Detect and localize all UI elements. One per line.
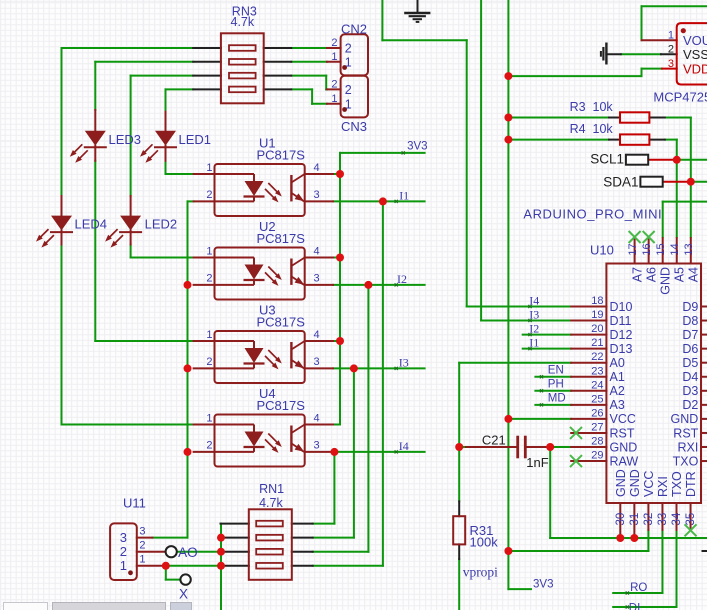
svg-text:RXI: RXI	[677, 440, 698, 454]
svg-text:A3: A3	[610, 398, 625, 412]
svg-text:4: 4	[314, 162, 320, 174]
svg-text:2: 2	[345, 42, 352, 56]
svg-text:VOUT: VOUT	[683, 33, 707, 48]
svg-text:I1: I1	[529, 336, 539, 350]
svg-text:GND: GND	[671, 412, 699, 426]
svg-text:2: 2	[206, 440, 212, 452]
svg-text:RAW: RAW	[610, 454, 639, 468]
svg-text:3: 3	[120, 530, 127, 545]
svg-text:RST: RST	[610, 426, 635, 440]
svg-text:TXO: TXO	[673, 454, 699, 468]
svg-text:DI: DI	[629, 603, 641, 610]
svg-text:PC817S: PC817S	[257, 148, 306, 163]
svg-text:25: 25	[591, 393, 603, 405]
svg-text:30: 30	[615, 513, 627, 526]
svg-text:U11: U11	[123, 496, 146, 511]
svg-text:27: 27	[591, 421, 603, 433]
svg-text:21: 21	[591, 337, 603, 349]
svg-text:U10: U10	[590, 243, 614, 258]
svg-text:4: 4	[314, 245, 320, 257]
svg-text:1nF: 1nF	[526, 455, 548, 470]
svg-text:LED4: LED4	[75, 217, 108, 232]
svg-text:3: 3	[314, 189, 320, 201]
svg-text:31: 31	[629, 513, 641, 526]
svg-text:3: 3	[668, 58, 674, 70]
svg-text:GND: GND	[610, 440, 638, 454]
svg-text:3V3: 3V3	[533, 578, 553, 590]
svg-text:D7: D7	[682, 328, 698, 342]
svg-text:X: X	[179, 587, 188, 602]
svg-text:I4: I4	[399, 439, 409, 453]
svg-text:RST: RST	[673, 426, 698, 440]
svg-text:I4: I4	[529, 294, 539, 308]
svg-text:1: 1	[345, 97, 352, 111]
svg-text:LED1: LED1	[179, 132, 212, 147]
svg-text:4: 4	[314, 329, 320, 341]
svg-text:ARDUINO_PRO_MINI: ARDUINO_PRO_MINI	[523, 207, 662, 222]
svg-text:D2: D2	[682, 398, 698, 412]
svg-text:A6: A6	[644, 267, 658, 282]
svg-text:LED2: LED2	[145, 217, 178, 232]
svg-text:R4 10k: R4 10k	[570, 122, 614, 136]
svg-text:DTR: DTR	[684, 471, 698, 497]
svg-text:A2: A2	[610, 384, 625, 398]
svg-text:18: 18	[591, 295, 603, 307]
svg-text:16: 16	[641, 243, 653, 255]
svg-text:VCC: VCC	[642, 471, 656, 497]
svg-text:PC817S: PC817S	[257, 315, 306, 330]
svg-text:D12: D12	[610, 328, 633, 342]
svg-text:D6: D6	[682, 342, 698, 356]
svg-text:GND: GND	[659, 267, 673, 295]
svg-text:23: 23	[591, 365, 603, 377]
svg-text:MCP4725: MCP4725	[653, 90, 707, 105]
svg-text:29: 29	[591, 450, 603, 462]
svg-text:I3: I3	[399, 355, 409, 369]
svg-text:32: 32	[643, 513, 655, 526]
svg-text:RN1: RN1	[259, 482, 284, 496]
svg-text:1: 1	[668, 30, 674, 42]
svg-text:1: 1	[206, 412, 212, 424]
svg-text:2: 2	[120, 544, 127, 559]
svg-text:EN: EN	[548, 364, 564, 376]
svg-text:RO: RO	[630, 582, 647, 594]
svg-text:LED3: LED3	[109, 132, 142, 147]
svg-text:24: 24	[591, 379, 603, 391]
svg-text:3V3: 3V3	[407, 141, 427, 153]
svg-text:A5: A5	[673, 267, 687, 282]
svg-text:VCC: VCC	[610, 412, 636, 426]
svg-text:A4: A4	[687, 267, 701, 282]
svg-text:2: 2	[139, 540, 145, 552]
svg-text:1: 1	[331, 93, 337, 105]
svg-text:C21: C21	[482, 432, 506, 447]
svg-text:34: 34	[671, 512, 683, 525]
svg-text:D8: D8	[682, 314, 698, 328]
svg-text:13: 13	[683, 243, 695, 255]
svg-text:I2: I2	[397, 272, 407, 286]
svg-text:1: 1	[120, 558, 127, 573]
svg-text:D3: D3	[682, 384, 698, 398]
svg-text:D11: D11	[610, 314, 632, 328]
svg-text:PC817S: PC817S	[257, 231, 306, 246]
svg-text:1: 1	[206, 329, 212, 341]
svg-text:2: 2	[331, 37, 337, 49]
svg-text:AO: AO	[178, 545, 198, 560]
svg-text:GND: GND	[628, 469, 642, 497]
svg-text:I2: I2	[529, 322, 539, 336]
svg-text:100k: 100k	[470, 535, 499, 550]
svg-text:MD: MD	[548, 392, 566, 404]
svg-text:28: 28	[591, 436, 603, 448]
svg-text:2: 2	[345, 83, 352, 97]
svg-text:SCL1: SCL1	[590, 151, 624, 166]
svg-text:2: 2	[206, 189, 212, 201]
svg-text:D13: D13	[610, 342, 633, 356]
svg-text:1: 1	[345, 55, 352, 69]
svg-text:17: 17	[627, 243, 639, 255]
svg-text:VSS: VSS	[683, 47, 707, 62]
svg-text:D10: D10	[610, 300, 633, 314]
svg-text:A0: A0	[610, 356, 625, 370]
svg-text:20: 20	[591, 323, 603, 335]
svg-text:CN2: CN2	[341, 21, 367, 36]
svg-text:3: 3	[314, 440, 320, 452]
svg-text:D9: D9	[682, 300, 698, 314]
svg-text:33: 33	[657, 513, 669, 526]
svg-text:TXO: TXO	[670, 471, 684, 497]
svg-text:22: 22	[591, 351, 603, 363]
svg-text:26: 26	[591, 407, 603, 419]
svg-text:D5: D5	[682, 356, 698, 370]
svg-text:R3 10k: R3 10k	[570, 100, 614, 114]
svg-text:2: 2	[331, 78, 337, 90]
svg-text:3: 3	[314, 356, 320, 368]
svg-text:1: 1	[206, 245, 212, 257]
svg-text:SDA1: SDA1	[603, 174, 638, 189]
svg-text:RXI: RXI	[656, 476, 670, 497]
svg-text:15: 15	[655, 243, 667, 255]
svg-text:PH: PH	[548, 378, 564, 390]
svg-text:VDD: VDD	[683, 61, 707, 76]
svg-text:2: 2	[206, 356, 212, 368]
svg-text:14: 14	[669, 243, 681, 255]
svg-text:1: 1	[331, 51, 337, 63]
svg-text:2: 2	[206, 273, 212, 285]
svg-text:4.7k: 4.7k	[259, 496, 283, 510]
svg-text:19: 19	[591, 309, 603, 321]
svg-text:vpropi: vpropi	[463, 565, 498, 580]
svg-text:A1: A1	[610, 370, 625, 384]
svg-text:1: 1	[139, 554, 145, 566]
svg-text:3: 3	[139, 525, 145, 537]
svg-text:D4: D4	[682, 370, 698, 384]
svg-text:2: 2	[668, 44, 674, 56]
svg-text:4.7k: 4.7k	[231, 15, 255, 29]
svg-text:A7: A7	[630, 267, 644, 282]
svg-text:3: 3	[314, 273, 320, 285]
svg-text:PC817S: PC817S	[257, 398, 306, 413]
svg-text:I1: I1	[399, 189, 409, 203]
svg-text:GND: GND	[614, 469, 628, 497]
svg-text:4: 4	[314, 412, 320, 424]
svg-text:CN3: CN3	[341, 119, 367, 134]
svg-text:I3: I3	[529, 308, 539, 322]
svg-text:35: 35	[685, 513, 697, 526]
svg-text:1: 1	[206, 162, 212, 174]
